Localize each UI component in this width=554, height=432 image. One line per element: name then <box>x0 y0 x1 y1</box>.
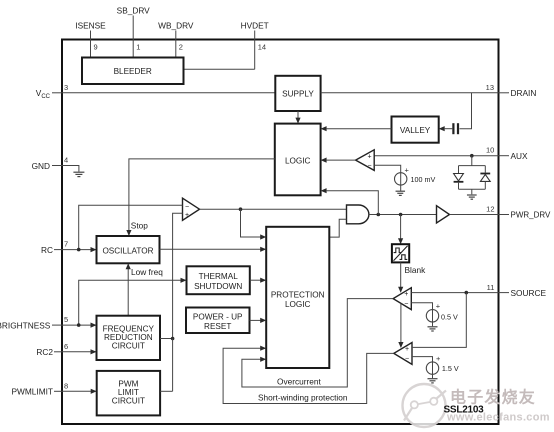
svg-text:+: + <box>404 291 408 298</box>
svg-text:10: 10 <box>486 145 494 154</box>
svg-text:4: 4 <box>64 156 68 165</box>
svg-text:6: 6 <box>64 342 68 351</box>
svg-text:RC: RC <box>41 245 53 255</box>
svg-text:SUPPLY: SUPPLY <box>282 90 314 99</box>
svg-text:THERMAL: THERMAL <box>199 272 239 281</box>
svg-text:−: − <box>367 163 371 170</box>
svg-text:+: + <box>436 302 441 311</box>
svg-text:VCC: VCC <box>36 88 51 100</box>
svg-text:+: + <box>367 153 371 160</box>
svg-text:BRIGHTNESS: BRIGHTNESS <box>0 320 51 330</box>
svg-text:GND: GND <box>32 161 50 171</box>
svg-text:2: 2 <box>179 43 183 52</box>
svg-text:SB_DRV: SB_DRV <box>117 6 151 16</box>
svg-text:ISENSE: ISENSE <box>75 21 106 31</box>
svg-text:POWER - UP: POWER - UP <box>193 312 243 321</box>
svg-text:PWMLIMIT: PWMLIMIT <box>12 387 53 397</box>
svg-text:DRAIN: DRAIN <box>511 88 537 98</box>
svg-text:AUX: AUX <box>511 151 529 161</box>
svg-text:Short-winding protection: Short-winding protection <box>258 393 348 403</box>
svg-text:RESET: RESET <box>204 322 231 331</box>
svg-text:BLEEDER: BLEEDER <box>114 67 152 76</box>
svg-text:Low freq: Low freq <box>131 267 163 277</box>
svg-text:1.5 V: 1.5 V <box>442 364 459 373</box>
svg-text:Overcurrent: Overcurrent <box>277 376 321 386</box>
svg-text:CIRCUIT: CIRCUIT <box>112 342 145 351</box>
svg-text:+: + <box>185 212 189 219</box>
svg-text:11: 11 <box>487 283 495 292</box>
svg-text:CIRCUIT: CIRCUIT <box>112 397 145 406</box>
svg-text:Stop: Stop <box>131 220 148 230</box>
svg-text:PWR_DRV: PWR_DRV <box>511 211 552 220</box>
svg-text:7: 7 <box>64 240 68 249</box>
svg-text:13: 13 <box>486 83 494 92</box>
svg-text:12: 12 <box>486 205 494 214</box>
svg-text:3: 3 <box>64 83 68 92</box>
svg-text:1: 1 <box>136 43 140 52</box>
svg-text:−: − <box>405 356 409 363</box>
svg-text:Blank: Blank <box>405 265 427 275</box>
svg-text:5: 5 <box>64 315 68 324</box>
svg-text:14: 14 <box>258 43 266 52</box>
svg-text:+: + <box>436 354 441 363</box>
svg-text:+: + <box>405 346 409 353</box>
svg-text:100 mV: 100 mV <box>411 175 436 184</box>
svg-text:−: − <box>185 204 189 211</box>
svg-text:SOURCE: SOURCE <box>511 288 547 298</box>
svg-text:8: 8 <box>64 381 68 390</box>
svg-text:9: 9 <box>94 43 98 52</box>
svg-text:+: + <box>405 165 410 174</box>
svg-text:SHUTDOWN: SHUTDOWN <box>194 282 242 291</box>
svg-text:VALLEY: VALLEY <box>400 126 431 135</box>
svg-text:LOGIC: LOGIC <box>285 300 311 309</box>
svg-text:LOGIC: LOGIC <box>285 157 311 166</box>
svg-text:RC2: RC2 <box>36 347 53 357</box>
svg-text:0.5 V: 0.5 V <box>441 312 458 321</box>
svg-text:−: − <box>404 301 408 308</box>
svg-text:HVDET: HVDET <box>241 21 269 31</box>
svg-text:PROTECTION: PROTECTION <box>271 291 325 300</box>
svg-text:WB_DRV: WB_DRV <box>158 21 194 31</box>
svg-text:SSL2103: SSL2103 <box>444 405 485 416</box>
svg-text:OSCILLATOR: OSCILLATOR <box>102 247 153 256</box>
